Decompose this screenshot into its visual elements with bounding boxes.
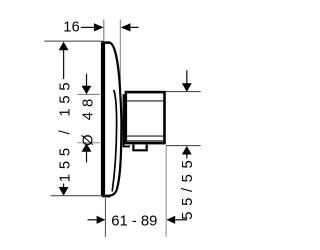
dim 16 right leader and arrow [129,26,138,28]
dim 61-89 left extension line [104,198,106,237]
svg-text:55/55: 55/55 [180,155,196,220]
plate front extension line [103,20,105,42]
svg-text:155 / 155: 155 / 155 [58,78,74,182]
dim 55 down arrow [182,83,192,92]
dim 155 down arrow [59,187,69,196]
dim 48 bottom extension line [77,142,99,144]
wall plane extension line [119,20,121,96]
dim 16 left leader and arrow [81,26,95,28]
dim 55 lower shaft [186,154,188,159]
dim 61-89 left leader and arrow [88,219,98,221]
dim 48 top extension line [77,93,99,95]
dim 48 down arrow [82,86,92,95]
dim 55 upper shaft [186,70,188,84]
svg-text:16: 16 [63,19,80,35]
escutcheon plate outer dome silhouette [110,43,122,196]
valve body box [126,92,165,143]
dim 155 upper shaft [63,50,65,80]
dim 55 bottom extension line [166,145,201,147]
dim 155 lower shaft [63,184,65,189]
dim 155 bottom extension line [51,195,106,197]
dim 48 up arrow [82,143,92,152]
escutcheon plate left (front) edge [101,43,105,196]
dim 61-89 right extension line [165,146,167,237]
handle sleeve collar [124,95,131,146]
box top seam line [126,100,164,102]
dim 55 top extension line [166,91,201,93]
dim 155 top extension line [44,40,103,42]
escutcheon plate inner rim line [112,90,116,192]
dim 55 up arrow [182,146,192,155]
svg-text:Ø 48: Ø 48 [80,94,96,146]
bottom tab [133,145,146,151]
dim 155 up arrow [59,42,69,51]
box bottom inner line [126,140,164,142]
escutcheon plate bottom edge [102,195,111,198]
box lower seam line [126,135,164,137]
escutcheon plate top edge [101,41,110,44]
dim 48 lower shaft [86,151,88,162]
svg-text:61 - 89: 61 - 89 [111,213,157,229]
dim 48 upper shaft [86,74,88,87]
dim 61-89 right leader and arrow [175,219,187,221]
